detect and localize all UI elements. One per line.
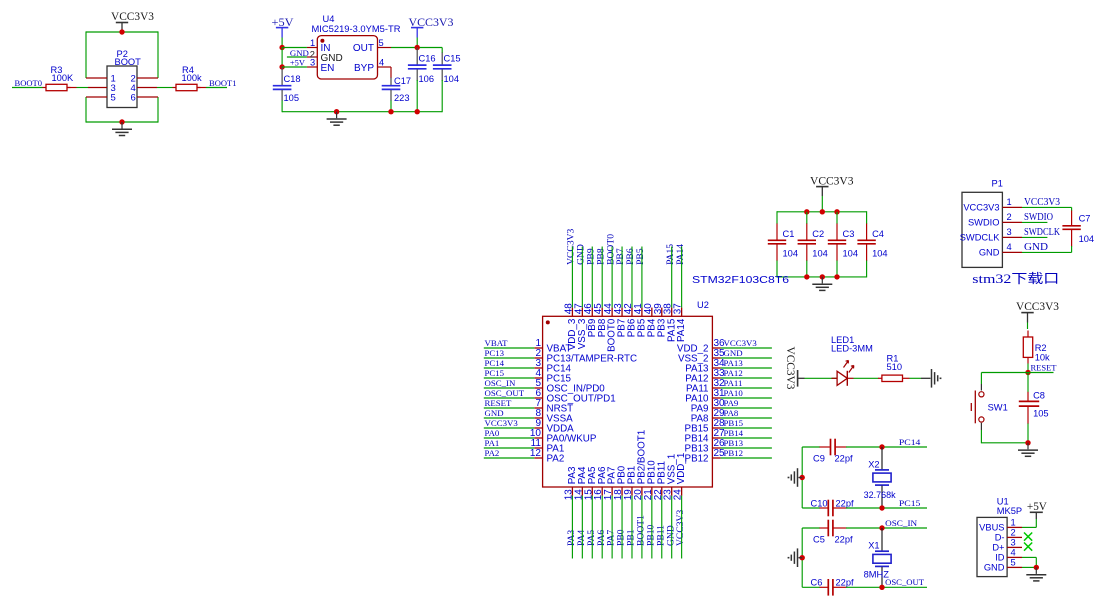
- power VCC3V3: [1016, 301, 1059, 323]
- pin 3 SWDCLK: [960, 227, 1022, 243]
- wire: [484, 397, 535, 399]
- wire: [581, 496, 583, 559]
- svg-text:22pf: 22pf: [836, 498, 855, 508]
- wire: [484, 367, 535, 369]
- pin 2: [307, 56, 317, 58]
- wire: [631, 496, 633, 559]
- connector U1: [977, 497, 1022, 577]
- wire: [484, 357, 535, 359]
- svg-text:C16: C16: [419, 54, 436, 64]
- wire: [836, 261, 838, 277]
- svg-text:VCC3V3: VCC3V3: [784, 347, 796, 390]
- svg-text:22pf: 22pf: [835, 534, 854, 544]
- wire: [581, 247, 583, 308]
- wire: [484, 407, 535, 409]
- svg-text:OSC_IN: OSC_IN: [885, 518, 918, 528]
- svg-text:VCC3V3: VCC3V3: [485, 418, 519, 428]
- pin 14 PA4: [573, 466, 588, 500]
- wire: [416, 80, 418, 112]
- pin 28 PB15: [685, 418, 726, 435]
- svg-text:C2: C2: [812, 229, 824, 239]
- junction: [334, 109, 339, 114]
- wire: [1022, 221, 1047, 223]
- junction: [820, 209, 825, 214]
- svg-text:X1: X1: [868, 541, 879, 551]
- wire: [777, 211, 867, 213]
- wire: [721, 397, 772, 399]
- mcu U2: [543, 275, 790, 487]
- svg-text:5: 5: [379, 38, 384, 48]
- ground: [932, 369, 941, 388]
- svg-text:U4: U4: [323, 14, 335, 24]
- pin 9 VDDA: [534, 418, 574, 435]
- pin 8 VSSA: [534, 408, 573, 425]
- wire: [806, 261, 808, 277]
- svg-text:C10: C10: [811, 498, 828, 508]
- pin 2: [137, 77, 158, 79]
- capacitor C1: [768, 224, 798, 262]
- pin 36 VDD_2: [677, 338, 725, 355]
- pin 4 PC15: [534, 368, 571, 385]
- svg-text:VDD_1: VDD_1: [676, 453, 687, 485]
- wire: [866, 261, 868, 278]
- wire: [484, 347, 535, 349]
- ground: [812, 277, 832, 291]
- wire: [661, 496, 663, 559]
- pin 29 PA8: [691, 408, 725, 425]
- junction: [879, 585, 884, 590]
- svg-text:GND: GND: [485, 408, 504, 418]
- wire: [1022, 206, 1072, 208]
- svg-text:4: 4: [1011, 548, 1016, 558]
- svg-text:2: 2: [1011, 528, 1016, 538]
- pin 5 OSC_IN/PD0: [534, 378, 605, 395]
- wire: [621, 496, 623, 559]
- pin 7 NRST: [534, 398, 573, 415]
- pin 10 PA0/WKUP: [530, 428, 597, 445]
- wire: [805, 377, 837, 379]
- wire: [802, 586, 820, 588]
- pin 45 PB8: [593, 303, 608, 338]
- wire: [721, 447, 772, 449]
- wire: [721, 377, 772, 379]
- svg-text:PC15: PC15: [485, 368, 505, 378]
- pin 6: [137, 96, 158, 98]
- wire: [484, 387, 535, 389]
- capacitor C4: [857, 224, 887, 262]
- svg-text:VCC3V3: VCC3V3: [724, 338, 758, 348]
- pin 32 PA11: [686, 378, 725, 395]
- svg-text:PB14: PB14: [724, 428, 744, 438]
- svg-text:BOOT0: BOOT0: [15, 78, 43, 88]
- wire: [1027, 323, 1029, 330]
- wire: [281, 48, 283, 68]
- svg-text:10k: 10k: [1035, 352, 1050, 362]
- wire: [571, 496, 573, 559]
- pin 19 PB1: [623, 466, 638, 501]
- wire: [821, 196, 823, 212]
- pin 6 OSC_OUT/PD1: [534, 388, 615, 405]
- capacitor C9: [813, 439, 853, 464]
- wire: [591, 247, 593, 308]
- svg-text:PA1: PA1: [485, 438, 500, 448]
- crystal X2: [864, 447, 896, 508]
- pin 41 PB5: [633, 303, 648, 338]
- svg-text:105: 105: [284, 93, 300, 103]
- pin 3: [307, 66, 317, 68]
- svg-text:510: 510: [887, 362, 903, 372]
- svg-text:OSC_OUT: OSC_OUT: [885, 577, 925, 587]
- pin 4: [137, 87, 157, 89]
- svg-text:GND: GND: [984, 563, 1005, 573]
- wire: [282, 47, 307, 49]
- wire: [1022, 236, 1047, 238]
- pin 2 PC13/TAMPER-RTC: [534, 348, 637, 365]
- svg-text:GND: GND: [1024, 242, 1048, 253]
- svg-text:100K: 100K: [52, 73, 75, 83]
- svg-text:SWDIO: SWDIO: [968, 218, 1000, 228]
- wire: [641, 247, 643, 308]
- pin 30 PA9: [691, 398, 725, 415]
- svg-text:ID: ID: [995, 553, 1005, 563]
- svg-text:VCC3V3: VCC3V3: [675, 510, 686, 546]
- svg-text:C4: C4: [872, 229, 884, 239]
- resistor R2: [1023, 331, 1050, 364]
- junction: [1025, 440, 1030, 445]
- wire: [721, 367, 772, 369]
- svg-text:STM32F103C8T6: STM32F103C8T6: [692, 275, 790, 286]
- wire: [671, 247, 673, 308]
- resistor R4: [173, 65, 203, 91]
- pin 2 D-: [995, 528, 1022, 543]
- pin 47 VSS_3: [573, 303, 588, 349]
- resistor R1: [878, 354, 910, 382]
- wire: [281, 38, 283, 48]
- junction: [1025, 370, 1030, 375]
- wire: [801, 528, 803, 587]
- pin 1 VBAT: [534, 338, 571, 355]
- capacitor C10: [811, 498, 855, 516]
- power VCC3V3: [111, 11, 154, 32]
- svg-text:104: 104: [783, 249, 799, 259]
- pin 1: [86, 77, 107, 79]
- junction: [800, 555, 805, 560]
- wire: [601, 496, 603, 559]
- pin 43 PB7: [613, 303, 628, 338]
- wire: [484, 377, 535, 379]
- wire: [571, 247, 573, 308]
- svg-text:VCC3V3: VCC3V3: [963, 203, 999, 213]
- capacitor C15: [433, 53, 461, 85]
- wire: [802, 527, 820, 529]
- pin 24 VDD_1: [673, 453, 688, 501]
- wire: [1027, 373, 1029, 393]
- capacitor C2: [798, 224, 828, 262]
- svg-text:PA2: PA2: [547, 454, 565, 465]
- svg-text:VCC3V3: VCC3V3: [111, 11, 154, 23]
- wire: [441, 80, 443, 112]
- power VCC3V3: [784, 347, 804, 390]
- wire: [390, 46, 392, 48]
- svg-text:PA0: PA0: [485, 428, 500, 438]
- svg-text:C7: C7: [1079, 214, 1091, 224]
- svg-text:MIC5219-3.0YM5-TR: MIC5219-3.0YM5-TR: [312, 24, 401, 34]
- wire: [671, 496, 673, 559]
- svg-text:32.768k: 32.768k: [864, 490, 896, 500]
- wire: [910, 377, 922, 379]
- svg-text:SWDIO: SWDIO: [1024, 212, 1053, 223]
- svg-text:PA14: PA14: [675, 244, 686, 265]
- wire: [85, 31, 87, 78]
- svg-text:PA9: PA9: [724, 398, 739, 408]
- svg-text:C5: C5: [813, 534, 825, 544]
- pin 12 PA2: [530, 448, 564, 465]
- pin 20 PB2/BOOT1: [633, 430, 648, 500]
- wire: [721, 347, 772, 349]
- capacitor C17: [382, 76, 411, 103]
- ground: [327, 112, 347, 126]
- wire: [846, 586, 927, 588]
- ground: [789, 468, 798, 487]
- junction: [1034, 565, 1039, 570]
- pin 42 PB6: [623, 303, 638, 337]
- wire: [801, 447, 803, 508]
- wire: [1022, 556, 1036, 558]
- wire: [484, 417, 535, 419]
- svg-text:EN: EN: [321, 63, 335, 74]
- pin 23 VSS_1: [663, 454, 678, 501]
- wire: [484, 447, 535, 449]
- wire: [391, 47, 442, 49]
- svg-text:PA14: PA14: [676, 318, 687, 342]
- ground: [112, 122, 132, 136]
- wire: [1028, 372, 1054, 374]
- wire: [721, 457, 772, 459]
- junction: [119, 29, 124, 34]
- pin 4 ID: [995, 548, 1022, 563]
- pin 38 PA15: [663, 303, 678, 342]
- no-connect X pin 2: [1024, 533, 1032, 541]
- wire: [681, 496, 683, 559]
- svg-text:105: 105: [1033, 409, 1049, 419]
- wire: [641, 496, 643, 559]
- connector P1: [962, 179, 1003, 268]
- pin 25 PB12: [685, 448, 726, 465]
- pin 22 PB11: [653, 461, 668, 500]
- capacitor C5: [813, 520, 853, 545]
- svg-text:1: 1: [1007, 197, 1012, 207]
- svg-text:VCC3V3: VCC3V3: [1024, 197, 1060, 208]
- wire: [802, 446, 820, 448]
- wire: [1027, 424, 1029, 443]
- svg-text:VBUS: VBUS: [979, 523, 1004, 533]
- svg-text:PC15: PC15: [899, 498, 921, 508]
- pin 44 BOOT0: [603, 303, 618, 352]
- pin 3 D+: [992, 538, 1022, 553]
- svg-text:GND: GND: [724, 348, 743, 358]
- svg-text:PC13: PC13: [485, 348, 505, 358]
- svg-text:1: 1: [310, 38, 315, 48]
- wire: [980, 373, 982, 385]
- wire: [802, 507, 820, 509]
- svg-text:PA11: PA11: [724, 378, 743, 388]
- svg-text:U2: U2: [697, 300, 709, 310]
- capacitor C18: [273, 67, 301, 103]
- wire: [776, 261, 778, 278]
- pin 5 GND: [984, 558, 1022, 573]
- svg-text:100k: 100k: [182, 73, 203, 83]
- svg-text:PA10: PA10: [724, 388, 744, 398]
- svg-text:P1: P1: [992, 179, 1003, 189]
- svg-text:PB13: PB13: [724, 438, 744, 448]
- pin 5: [378, 47, 392, 49]
- svg-text:BOOT: BOOT: [115, 57, 142, 67]
- junction: [388, 109, 393, 114]
- wire: [621, 247, 623, 308]
- svg-text:4: 4: [379, 58, 384, 68]
- wire: [846, 446, 927, 448]
- svg-text:SWDCLK: SWDCLK: [1024, 227, 1061, 238]
- svg-text:+5V: +5V: [1027, 501, 1048, 513]
- svg-text:6: 6: [131, 93, 136, 104]
- wire: [981, 442, 1028, 444]
- pin 3 PC14: [534, 358, 571, 375]
- svg-text:D-: D-: [995, 533, 1005, 543]
- svg-text:PB12: PB12: [724, 448, 744, 458]
- wire: [721, 427, 772, 429]
- junction: [879, 444, 884, 449]
- pin 3: [88, 87, 107, 89]
- svg-text:OSC_OUT: OSC_OUT: [485, 388, 525, 398]
- wire: [1022, 526, 1036, 528]
- wire: [611, 247, 613, 308]
- pin 39 PB3: [653, 303, 668, 338]
- svg-text:stm32下载口: stm32下载口: [972, 271, 1059, 286]
- wire: [846, 527, 927, 529]
- svg-text:SWDCLK: SWDCLK: [960, 233, 1001, 243]
- svg-text:C8: C8: [1033, 390, 1045, 400]
- pin 21 PB10: [643, 460, 658, 501]
- svg-text:104: 104: [872, 249, 888, 259]
- wire: [282, 111, 442, 113]
- svg-text:1: 1: [1011, 518, 1016, 528]
- wire: [484, 457, 535, 459]
- wire: [776, 211, 778, 224]
- wire: [721, 407, 772, 409]
- pin 27 PB14: [685, 428, 726, 445]
- wire: [85, 97, 87, 123]
- wire: [866, 211, 868, 224]
- wire: [1027, 364, 1029, 373]
- junction: [415, 109, 420, 114]
- svg-text:PC14: PC14: [899, 437, 921, 447]
- svg-text:C3: C3: [843, 229, 855, 239]
- wire: [12, 87, 43, 89]
- wire: [1071, 207, 1073, 211]
- wire: [157, 31, 159, 78]
- pin 13 PA3: [563, 466, 578, 500]
- pin 37 PA14: [673, 303, 688, 342]
- junction: [415, 45, 420, 50]
- switch SW1: [971, 384, 1007, 430]
- svg-text:VBAT: VBAT: [485, 338, 509, 348]
- wire: [390, 67, 392, 78]
- svg-text:PA2: PA2: [485, 448, 500, 458]
- wire: [854, 377, 879, 379]
- wire: [631, 247, 633, 308]
- svg-text:104: 104: [444, 74, 460, 84]
- wire: [281, 101, 283, 113]
- pin 15 PA5: [583, 466, 598, 500]
- wire: [681, 247, 683, 308]
- pin 46 PB9: [583, 303, 598, 338]
- svg-text:2: 2: [1007, 212, 1012, 222]
- wire: [591, 496, 593, 559]
- junction: [804, 274, 809, 279]
- wire: [601, 247, 603, 308]
- capacitor C6: [811, 578, 855, 596]
- junction: [279, 64, 284, 69]
- svg-text:3: 3: [1007, 227, 1012, 237]
- wire: [1022, 566, 1036, 568]
- pin 16 PA6: [593, 466, 608, 500]
- power VCC3V3: [409, 17, 454, 38]
- wire: [86, 31, 158, 33]
- svg-text:223: 223: [394, 93, 410, 103]
- wire: [611, 496, 613, 559]
- pin 35 VSS_2: [678, 348, 725, 365]
- capacitor C8: [1019, 390, 1049, 424]
- wire: [157, 87, 173, 89]
- junction: [820, 274, 825, 279]
- wire: [157, 97, 159, 123]
- power VCC3V3: [810, 176, 854, 197]
- wire: [1035, 519, 1037, 527]
- wire: [651, 496, 653, 559]
- junction: [834, 209, 839, 214]
- svg-text:3: 3: [1011, 538, 1016, 548]
- pin 1: [307, 47, 317, 49]
- wire: [721, 417, 772, 419]
- svg-text:PA8: PA8: [724, 408, 739, 418]
- wire: [441, 48, 443, 54]
- crystal X1: [864, 528, 892, 587]
- no-connect X pin 3: [1024, 543, 1032, 551]
- pin 33 PA12: [685, 368, 725, 385]
- svg-text:C15: C15: [444, 54, 461, 64]
- svg-text:BOOT1: BOOT1: [209, 78, 237, 88]
- svg-text:D+: D+: [992, 543, 1004, 553]
- wire: [484, 427, 535, 429]
- power +5V: [272, 17, 295, 38]
- junction: [879, 525, 884, 530]
- svg-text:X2: X2: [868, 459, 879, 469]
- svg-text:PB12: PB12: [685, 454, 709, 465]
- svg-text:U1: U1: [997, 497, 1009, 507]
- svg-text:C9: C9: [813, 453, 825, 463]
- capacitor C7: [1062, 211, 1094, 247]
- svg-text:BYP: BYP: [354, 63, 374, 74]
- pin 31 PA10: [685, 388, 725, 405]
- junction: [879, 505, 884, 510]
- svg-text:22pf: 22pf: [835, 453, 854, 463]
- wire: [846, 507, 927, 509]
- pin 5: [86, 96, 107, 98]
- wire: [1071, 246, 1073, 252]
- svg-text:MK5P: MK5P: [997, 506, 1022, 516]
- svg-text:22pf: 22pf: [836, 578, 855, 588]
- connector P2: [107, 49, 141, 108]
